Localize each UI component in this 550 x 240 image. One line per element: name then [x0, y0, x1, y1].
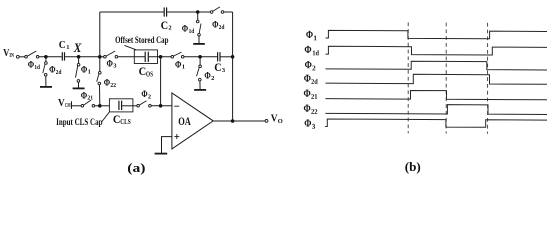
svg-text:CLS: CLS — [120, 117, 130, 126]
switch PHI3 (series) — [104, 51, 118, 70]
svg-text:2: 2 — [148, 93, 151, 100]
switch PHI1 (series before opamp) — [171, 52, 185, 71]
svg-text:Φ: Φ — [107, 58, 113, 69]
node F junction — [196, 10, 200, 14]
svg-text:Φ: Φ — [304, 103, 311, 115]
svg-text:1d: 1d — [34, 64, 40, 71]
svg-text:Φ: Φ — [141, 90, 147, 100]
leader line — [102, 112, 109, 121]
svg-text:2: 2 — [312, 64, 316, 72]
switch PHI22 (from node B down) — [97, 57, 117, 106]
svg-text:3: 3 — [312, 123, 316, 131]
svg-text:2: 2 — [168, 25, 171, 32]
wire — [118, 56, 145, 58]
wire (left vertical of feedback) — [99, 12, 101, 57]
capacitor C2 — [161, 7, 172, 32]
svg-text:21: 21 — [311, 93, 318, 101]
wire — [149, 56, 171, 58]
wire — [39, 56, 62, 58]
switch PHI1d (input series) — [25, 51, 41, 71]
svg-text:(a): (a) — [127, 160, 145, 175]
svg-text:Φ: Φ — [204, 71, 210, 82]
ground (under PHI2) — [194, 89, 206, 91]
svg-text:Φ: Φ — [175, 59, 181, 70]
capacitor C1 — [59, 39, 70, 61]
node A junction — [44, 55, 48, 59]
node VIN label — [3, 48, 15, 59]
svg-text:Φ: Φ — [304, 118, 311, 130]
svg-text:OS: OS — [146, 69, 153, 78]
wire — [95, 105, 110, 107]
waveform PHI22 — [304, 103, 548, 117]
leader line — [124, 45, 136, 49]
svg-text:Input CLS Cap: Input CLS Cap — [56, 117, 102, 127]
svg-text:V: V — [271, 113, 278, 125]
svg-text:IN: IN — [9, 53, 14, 59]
waveform PHI1 — [306, 29, 547, 43]
wire (top feedback line) — [100, 11, 164, 13]
offset stored cap box — [134, 50, 157, 64]
switch PHI2d (top series) — [210, 7, 224, 31]
ground (under PHI1) — [73, 87, 85, 89]
svg-text:Φ: Φ — [182, 23, 188, 34]
waveform PHI3 — [304, 118, 547, 132]
wire (right vertical) — [232, 12, 234, 121]
node E junction — [231, 55, 235, 59]
svg-text:O: O — [278, 118, 283, 125]
wire — [65, 56, 104, 58]
wire — [19, 56, 25, 58]
wire — [167, 11, 210, 13]
svg-text:Φ: Φ — [104, 78, 110, 89]
switch PHI1 (X to ground) — [76, 57, 91, 88]
waveform PHI21 — [304, 88, 548, 102]
waveform PHI1d — [304, 44, 547, 58]
input terminal — [16, 55, 19, 58]
svg-text:Φ: Φ — [305, 59, 312, 71]
svg-text:Φ: Φ — [28, 60, 34, 71]
svg-text:Φ: Φ — [304, 73, 311, 85]
VCM terminal bar — [71, 101, 73, 109]
svg-text:1: 1 — [66, 44, 69, 51]
svg-text:OA: OA — [178, 114, 191, 128]
svg-text:Φ: Φ — [304, 44, 311, 56]
dashed line t3 — [487, 23, 489, 134]
wire (+ input to ground) — [162, 137, 172, 153]
wire (output) — [213, 120, 265, 122]
wire — [221, 56, 233, 58]
node VO label — [271, 113, 283, 126]
svg-text:22: 22 — [110, 82, 116, 89]
svg-text:2d: 2d — [311, 78, 318, 86]
node H junction — [159, 104, 163, 108]
wire — [151, 105, 172, 107]
capacitor C3 — [214, 52, 226, 74]
node C junction — [159, 55, 163, 59]
svg-text:C: C — [214, 60, 222, 74]
dashed line t2 — [445, 23, 447, 134]
switch PHI2d (shunt to ground) — [43, 57, 62, 86]
svg-text:Φ: Φ — [81, 64, 87, 75]
ground (under PHI2d) — [40, 86, 52, 88]
wire — [224, 11, 233, 13]
wire (down to CLS line) — [160, 57, 162, 106]
switch PHI21 — [81, 90, 95, 107]
svg-text:1d: 1d — [312, 49, 319, 57]
node X junction — [77, 55, 81, 59]
node B junction (top feedback / PHI22) — [98, 55, 102, 59]
svg-text:Φ: Φ — [49, 65, 55, 76]
wire — [184, 56, 217, 58]
svg-text:1: 1 — [182, 64, 185, 71]
switch PHI2 (shunt to ground) — [197, 57, 216, 89]
svg-text:1d: 1d — [189, 28, 195, 35]
dashed line t1 — [407, 22, 409, 133]
svg-text:1: 1 — [88, 69, 91, 76]
svg-text:C: C — [161, 18, 169, 32]
wire — [122, 105, 137, 107]
output terminal — [265, 120, 268, 123]
switch PHI2 (series before opamp +) — [137, 90, 151, 107]
svg-text:Φ: Φ — [81, 90, 87, 101]
svg-text:1: 1 — [313, 34, 317, 42]
node VCM label — [58, 98, 71, 109]
op-amp OA — [172, 93, 213, 149]
ground (top) — [193, 43, 205, 45]
waveform PHI2d — [304, 73, 547, 87]
wire — [72, 105, 82, 107]
input CLS cap box — [109, 99, 132, 112]
svg-text:CM: CM — [65, 103, 71, 109]
svg-text:Φ: Φ — [306, 29, 313, 41]
ground (opamp +) — [155, 153, 168, 155]
switch PHI1d (top, to ground) — [182, 12, 201, 43]
waveform PHI2 — [305, 59, 547, 73]
svg-text:2d: 2d — [56, 69, 62, 76]
svg-text:Φ: Φ — [304, 88, 311, 100]
capacitor CCLS — [113, 101, 131, 127]
svg-text:X: X — [73, 41, 82, 55]
node D junction — [198, 55, 202, 59]
svg-text:C: C — [59, 39, 66, 51]
svg-text:Φ: Φ — [212, 20, 218, 31]
svg-text:21: 21 — [87, 95, 93, 102]
svg-text:(b): (b) — [405, 159, 421, 174]
svg-text:22: 22 — [311, 108, 318, 116]
svg-text:Offset Stored Cap: Offset Stored Cap — [115, 35, 168, 45]
capacitor COS — [139, 52, 153, 79]
node G junction (PHI22 joins) — [98, 104, 102, 108]
svg-text:2d: 2d — [219, 24, 225, 31]
node I junction — [231, 119, 235, 123]
